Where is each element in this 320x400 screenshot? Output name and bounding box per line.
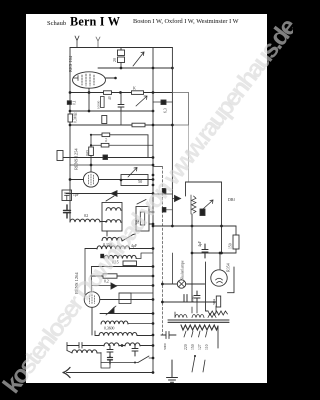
coil 02 [70,219,100,222]
resistor Ra [104,91,112,95]
secondary right lead [217,326,219,348]
V3 plate lead y300 [100,299,153,301]
oscillator coil row 2 [104,255,136,258]
svg-text:150: 150 [191,344,195,350]
cap right vert [132,346,138,357]
dial lamp [177,280,185,288]
tube V1 stem [88,88,90,111]
svg-text:4μF: 4μF [198,241,202,247]
cap 5000 [161,332,176,339]
wire y157 [63,157,153,159]
wire top horizontal [70,47,172,49]
resistor left edge [57,151,63,161]
V3 grid stem [91,267,93,293]
resistor below rect [216,296,220,307]
resistor R horiz 0,1 [102,133,110,137]
tube V4 RGN354 [211,270,227,286]
wire y127 [70,124,172,126]
chassis vertical x85 [84,249,86,297]
wire second horizontal [98,67,172,69]
diode arrow y193 [111,191,117,197]
tube V4 electrodes [216,278,223,283]
oscillator coil row 1 [97,246,130,249]
svg-text:10μF: 10μF [191,295,195,302]
resistor R 0,3M vertical [68,114,73,122]
svg-text:10000: 10000 [97,100,101,109]
output corner wire y182 [186,182,222,196]
left bus [69,48,71,223]
mains coil 1 [104,343,119,346]
rectifier box [206,262,235,311]
junction [120,67,123,70]
wire y276 [92,275,154,277]
transformer primary windings [175,315,187,318]
white schematic page [26,14,267,383]
svg-text:20: 20 [112,58,117,62]
main bus A x153 [152,48,154,373]
psu wire y302 [162,301,216,303]
wire coil to box [100,221,107,223]
tone diode arrow [108,308,114,314]
blob cap [200,209,205,216]
wire y95 [70,92,172,94]
wire y136 [91,135,148,158]
resistor above V2 [89,147,94,156]
cap blob y194 [153,193,172,195]
wire y313 [100,313,153,315]
svg-text:DRf: DRf [228,197,236,202]
trimmer arrow [133,52,144,66]
coupling cap blob top [161,100,166,105]
vertical x221 [221,182,223,253]
antenna [75,36,79,48]
choke arrow [203,200,213,209]
switch arms bottom [192,356,205,372]
svg-text:150: 150 [229,243,233,249]
capacitor C2 0,1 blob [67,101,71,105]
trimmer box 50 [121,175,148,186]
mains coil top row [95,331,99,336]
wire y164 [70,164,153,166]
choke DRf vertical zigzag [192,196,197,213]
coil inside box [106,208,121,211]
capacitor 5k vertical [120,111,122,125]
junction dots bus A [152,174,155,177]
tube V1 cathode lead [74,76,79,81]
svg-text:RES 164: RES 164 [68,55,73,72]
small box 5ohm [136,207,149,232]
tube V1 plate lead [106,77,116,79]
resistor 150 vertical [233,235,239,249]
IF transformer box [102,203,122,232]
mains coil row 3 [67,351,72,353]
wire y285 [92,285,154,287]
diode triangle [175,196,181,202]
faint line x188 [188,125,190,182]
wire y125 bus link [153,124,172,126]
wire y267 [92,266,154,268]
cap blob on y157 [103,155,108,160]
svg-text:Skalenlampe: Skalenlampe [181,260,185,280]
transformer secondary [181,325,218,330]
wire y111 [70,110,153,112]
cap 4uF vertical [202,244,208,258]
resistor Rk [132,91,144,95]
resistor R vert 0,05 [102,116,107,124]
electrolytic blob [64,205,71,218]
vertical x192 [191,214,193,302]
wire y193.5 [66,193,153,195]
wire y253 [192,252,236,254]
resistor R horiz [132,123,145,127]
svg-text:50: 50 [138,179,142,184]
tube V1 RES164 oval [73,72,106,88]
tube V2 electrodes [89,174,94,185]
capacitor vertical x98 [101,97,105,108]
boxed cap uF left [62,190,72,201]
mains coil 2 [125,343,140,346]
switch diagonal [122,234,136,241]
grid arrow [136,96,147,106]
trimmer arrow [128,168,137,178]
wire V4 anode stem [219,253,221,269]
mains arrow [67,372,154,374]
svg-text:5000: 5000 [163,343,167,350]
V2 cathode lead [70,179,83,181]
diode blob y285 [111,283,117,289]
svg-text:110: 110 [205,344,209,350]
svg-text:40: 40 [108,96,112,100]
bus bottom junctions [152,357,155,360]
svg-text:Bern I W: Bern I W [70,15,120,29]
svg-text:RENS 1254: RENS 1254 [74,148,79,170]
svg-text:220: 220 [184,344,188,350]
ground [167,360,178,382]
resistor y276 [103,274,117,278]
svg-text:Boston I W, Oxford I W, West: Boston I W, Oxford I W, Westminster I W [133,18,239,25]
psu cap y302 [184,295,187,303]
rectifier filament winding [208,311,228,315]
vertical bus C x172 [171,48,173,227]
bus B branch [153,166,162,168]
V2 plate lead [99,179,153,181]
svg-text:127: 127 [198,344,202,350]
switch diagonal [138,356,149,363]
svg-text:02: 02 [84,213,88,218]
wire y292 component box [119,292,153,294]
mains row y345 cap [67,343,104,351]
junction [171,67,174,70]
antenna 2 [96,37,100,48]
cap cluster [107,346,113,357]
mains taps [184,331,207,337]
svg-text:K: K [133,86,136,91]
wire y362 [101,358,153,363]
svg-text:1μF: 1μF [73,193,79,197]
capacitor C1 20 [118,50,125,56]
transformer core [168,320,229,322]
tube V3 electrodes [90,295,95,305]
coil y322 [101,321,128,324]
cap 10uF vertical [194,291,200,302]
wire y226 long [153,225,236,227]
tube V2 RENS1254 [83,172,98,187]
svg-text:Schaub: Schaub [47,20,66,27]
V3 anode stem down [91,307,93,335]
tube V3 RENS1264 [84,292,100,308]
switch arm on box [106,196,114,236]
tube V1 electrodes [82,74,94,86]
resistor y262 [123,261,137,266]
svg-text:R354: R354 [226,263,231,272]
coil 0150 below box [102,237,122,240]
wire y215 cap [166,209,173,211]
switch on small box [137,200,153,225]
